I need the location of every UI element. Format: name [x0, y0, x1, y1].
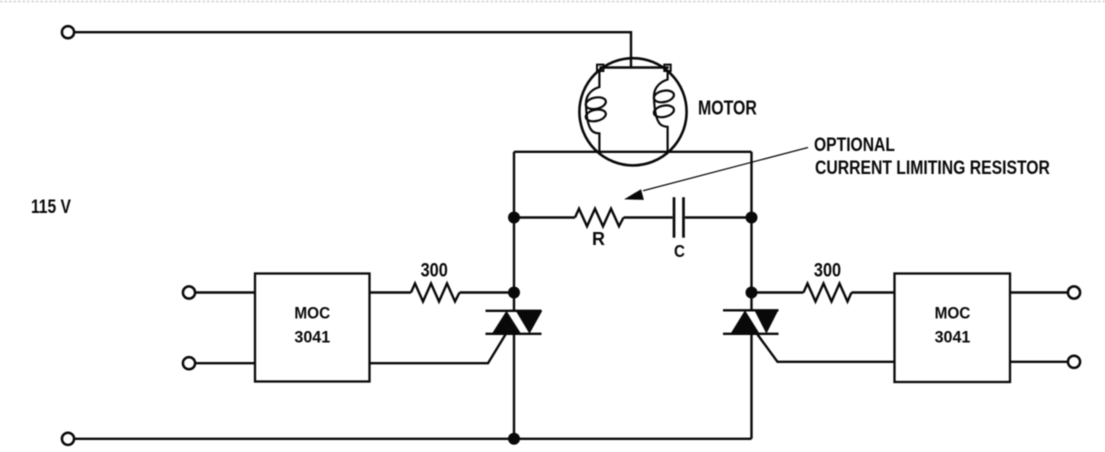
wire bottom	[74, 438, 752, 440]
wire right rail to resistor 300	[752, 291, 804, 293]
wire R to C	[624, 216, 673, 218]
terminal right output 2	[1068, 356, 1080, 368]
motor internal top bar	[600, 66, 669, 68]
motor terminal square right	[664, 65, 670, 71]
wire U2 output 2	[1010, 361, 1068, 363]
triac Q2 up triangle	[731, 310, 760, 334]
node junction dot right gate row	[746, 287, 758, 299]
node junction dot right RC	[746, 212, 758, 224]
triac Q1 top bar	[486, 310, 542, 312]
terminal left input 1	[183, 286, 195, 298]
motor winding left (coil)	[586, 70, 599, 153]
triac Q1 up triangle	[492, 311, 521, 334]
svg-text:OPTIONAL: OPTIONAL	[814, 134, 895, 156]
wire RC row left	[514, 216, 575, 218]
wire left input 2	[195, 362, 255, 364]
terminal right output 1	[1068, 286, 1080, 298]
wire left input 1	[195, 291, 255, 293]
svg-text:MOTOR: MOTOR	[698, 97, 757, 119]
svg-text:115 V: 115 V	[31, 195, 71, 217]
resistor 300 left	[411, 284, 460, 302]
triac Q2 top bar	[723, 309, 779, 311]
wire left vertical rail lower	[513, 333, 515, 439]
terminal top-left	[62, 26, 74, 38]
wire U1 to resistor 300	[370, 291, 412, 293]
terminal left input 2	[183, 357, 195, 369]
triac Q1 down triangle	[516, 311, 543, 334]
wire top horizontal	[74, 32, 631, 66]
optocoupler U2 box MOC 3041	[895, 274, 1011, 383]
node junction dot left gate row	[508, 287, 520, 299]
svg-text:C: C	[674, 241, 685, 262]
node junction dot left RC	[508, 212, 520, 224]
wire resistor to left rail	[460, 291, 515, 293]
optocoupler U1 box MOC 3041	[255, 274, 370, 382]
triac Q2 down triangle	[754, 310, 778, 334]
svg-text:300: 300	[814, 259, 841, 280]
wire left vertical rail upper	[513, 152, 515, 312]
svg-text:R: R	[592, 229, 605, 249]
wire right vertical rail lower	[750, 333, 752, 439]
triac Q2 bottom bar	[723, 333, 779, 335]
svg-text:3041: 3041	[294, 328, 330, 346]
svg-text:CURRENT LIMITING RESISTOR: CURRENT LIMITING RESISTOR	[815, 157, 1050, 179]
top border rule	[0, 1, 1105, 3]
wire U2 output 1	[1010, 291, 1068, 293]
node junction dot bottom	[508, 433, 520, 445]
resistor 300 right	[804, 284, 852, 302]
motor terminal square left	[597, 65, 603, 71]
leader line to resistor R	[643, 148, 808, 191]
svg-text:MOC: MOC	[294, 305, 330, 323]
resistor R	[575, 209, 624, 227]
svg-text:300: 300	[421, 259, 448, 280]
triac Q1 bottom bar	[486, 333, 542, 335]
terminal bottom-left	[62, 433, 74, 445]
wire Q2 gate lead	[758, 335, 895, 362]
motor winding right (coil)	[654, 70, 668, 153]
svg-text:MOC: MOC	[935, 305, 971, 323]
capacitor C	[673, 197, 676, 238]
wire resistor to U2	[852, 291, 895, 293]
leader arrowhead	[624, 189, 644, 200]
motor M1 circle	[579, 58, 686, 165]
wire C to right rail	[685, 216, 752, 218]
wire mid bus under motor	[514, 151, 752, 153]
wire right vertical rail upper	[750, 152, 752, 311]
wire U1 gate lead	[370, 335, 506, 364]
svg-text:3041: 3041	[935, 328, 971, 346]
